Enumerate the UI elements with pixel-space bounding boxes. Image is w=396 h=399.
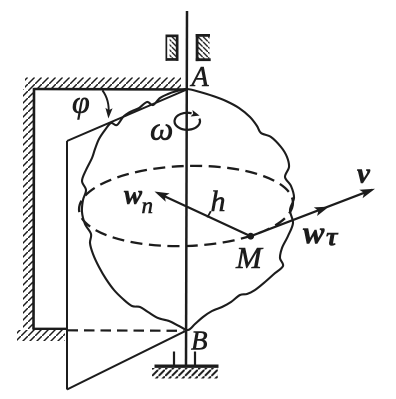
label w_n: [124, 180, 153, 219]
vector w_n (normal acceleration): [155, 192, 251, 237]
plane bottom edge: [67, 331, 186, 390]
label A: [190, 62, 210, 93]
bearing left block: [166, 35, 179, 61]
bottom bearing right flank: [194, 352, 196, 366]
ground line: [155, 365, 219, 368]
dashed line from wall to B: [68, 329, 184, 332]
svg-text:h: h: [211, 185, 226, 218]
point M: [247, 233, 254, 240]
body outline: [82, 89, 294, 330]
wall left edge: [32, 88, 35, 329]
wall top hatching: [25, 78, 181, 90]
svg-text:n: n: [142, 193, 154, 218]
svg-text:ω: ω: [150, 112, 173, 148]
svg-text:M: M: [235, 240, 264, 275]
bearing right block: [196, 34, 211, 61]
bottom bearing left flank: [173, 352, 175, 366]
wall bottom edge: [33, 328, 68, 330]
wall left hatching: [23, 89, 34, 329]
svg-text:v: v: [357, 158, 371, 190]
angle phi arrow: [103, 91, 113, 119]
dashed circle of M: [78, 162, 295, 249]
svg-text:φ: φ: [72, 84, 90, 120]
label omega: [150, 112, 173, 148]
ground hatching: [152, 368, 218, 379]
plane left edge: [66, 141, 68, 390]
rotation arrow omega: [175, 110, 200, 130]
plane top edge: [67, 90, 187, 142]
svg-text:w: w: [124, 180, 143, 210]
label w_tau: [303, 214, 339, 251]
label phi: [72, 84, 90, 120]
wall top edge: [34, 88, 187, 91]
svg-text:B: B: [191, 326, 208, 356]
label v: [357, 158, 371, 190]
svg-text:A: A: [190, 62, 210, 93]
label B: [191, 326, 208, 356]
axis AB: [186, 11, 187, 366]
tick on h segment: [207, 211, 211, 217]
label h: [211, 185, 226, 218]
tangent line with v and w_tau: [251, 189, 375, 237]
svg-text:w: w: [303, 214, 325, 250]
label M: [235, 240, 264, 275]
svg-text:τ: τ: [326, 222, 339, 251]
wall bottom hatching: [17, 330, 65, 341]
